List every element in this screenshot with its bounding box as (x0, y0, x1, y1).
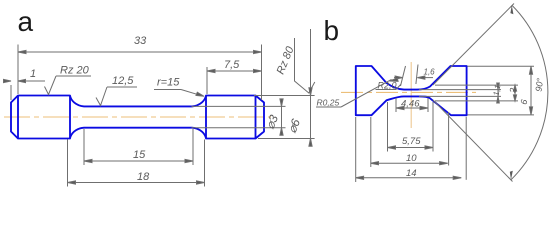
dimension 15 (84, 129, 193, 165)
svg-text:Rz 20: Rz 20 (60, 65, 90, 77)
svg-text:b: b (324, 15, 340, 46)
specimen a outline (11, 96, 264, 139)
dimension 6 (b right) (468, 66, 535, 115)
svg-text:33: 33 (134, 35, 147, 47)
roughness 12.5 (96, 87, 137, 106)
svg-text:10: 10 (406, 153, 417, 164)
svg-text:15: 15 (133, 149, 146, 161)
svg-text:18: 18 (137, 171, 150, 183)
notch axis centerlines specimen b (410, 62, 412, 128)
cone angle 90 sector lines (433, 4, 548, 182)
dimension 18 (68, 140, 205, 187)
dimension dia 6 (254, 29, 315, 147)
svg-text:14: 14 (406, 168, 417, 179)
svg-text:Rz 80: Rz 80 (275, 44, 297, 76)
centerline specimen b (341, 91, 476, 93)
leader R0.25 (316, 79, 392, 107)
leader r=15 (154, 90, 204, 97)
dimension dia 3 (192, 99, 286, 135)
specimen b outline (356, 66, 467, 115)
svg-text:⌀3: ⌀3 (263, 113, 281, 131)
arc arrowheads (510, 5, 514, 180)
svg-text:7,5: 7,5 (224, 59, 240, 71)
dimension 1.1 (b right) (419, 83, 501, 103)
svg-text:90°: 90° (534, 77, 546, 92)
dimension 5.75 (b) (388, 102, 434, 152)
dimension 1 (chamfer) (3, 79, 45, 100)
roughness Rz 80 (295, 38, 315, 93)
dimension 1.6 (b) (394, 65, 433, 87)
svg-text:5,75: 5,75 (402, 136, 421, 147)
svg-text:a: a (18, 6, 34, 37)
svg-text:r=15: r=15 (157, 77, 180, 89)
svg-text:1: 1 (30, 68, 36, 80)
dimension 33 (18, 45, 262, 101)
leader R2.0 (376, 78, 401, 89)
centerline specimen a (4, 116, 271, 118)
dimension 4.46 (b) (396, 98, 428, 112)
dimension 7.5 (207, 67, 262, 94)
dimension 14 (b) (356, 117, 467, 182)
svg-text:1,6: 1,6 (424, 68, 436, 77)
svg-text:2: 2 (507, 87, 518, 95)
svg-text:4,46: 4,46 (401, 98, 420, 109)
roughness Rz 20 (45, 76, 92, 95)
svg-text:1,1: 1,1 (492, 84, 503, 97)
svg-text:12,5: 12,5 (112, 75, 134, 87)
dimension 2 (b right) (435, 85, 518, 101)
svg-text:⌀6: ⌀6 (285, 117, 303, 135)
svg-text:R0,25: R0,25 (317, 98, 340, 108)
svg-text:6: 6 (519, 99, 530, 106)
dimension 10 (b) (371, 112, 449, 167)
